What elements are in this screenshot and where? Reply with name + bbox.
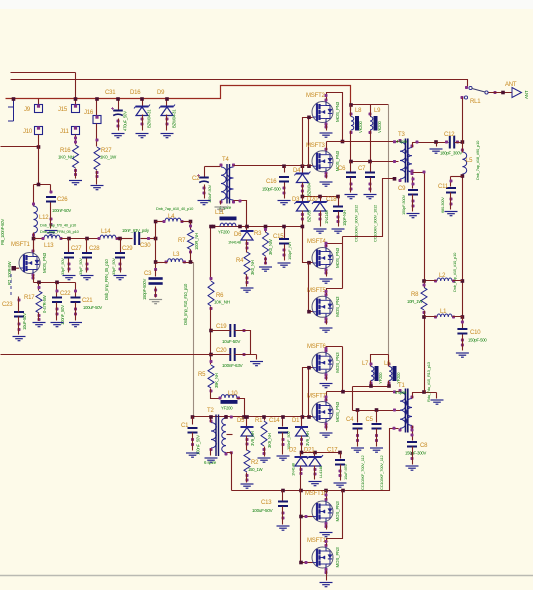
wire bottom-left long [1,354,211,356]
wire relay vertical [462,175,464,317]
wire D6 stub [246,227,248,231]
wire R17 gnd [38,313,40,321]
inductor L5 [461,149,473,178]
svg-text:100pF_NH: 100pF_NH [287,242,292,260]
wire C22 gnd [56,303,58,321]
ground C19 C20 [250,362,263,366]
svg-text:R16: R16 [60,148,71,154]
capacitor C21 [71,290,103,316]
ground C29 [114,276,127,280]
wire C21 gnd [75,303,77,321]
ground D21 [309,482,322,486]
svg-text:RL1: RL1 [470,99,481,105]
svg-text:0-47R-5W: 0-47R-5W [42,295,47,313]
svg-text:R6: R6 [216,293,224,299]
wire MSFT3 drain [326,142,328,151]
wire C14 stub [282,417,284,427]
svg-text:C14: C14 [269,418,280,424]
svg-text:Dnb_7ap_#10_40_p10: Dnb_7ap_#10_40_p10 [156,206,194,211]
svg-text:R1: R1 [255,418,263,424]
capacitor C9 [398,178,418,216]
svg-text:C11: C11 [438,184,449,190]
wire J11 to R16 [75,135,77,145]
transistor MSFT10 [305,491,340,528]
capacitor C4 [346,417,365,490]
resistor R17 [24,286,47,321]
wire MSFT1 drain [33,239,35,253]
wire MSFT2 drain [327,93,343,142]
svg-text:C4: C4 [346,417,354,423]
wire C28 gnd [86,259,88,273]
inductor L14 [98,229,119,240]
wire C5 gnd [376,429,378,447]
diode D5 [237,418,255,446]
svg-text:9 spire: 9 spire [395,390,407,395]
svg-text:10R_1W: 10R_1W [407,299,422,304]
wire R5 to L10 [211,389,221,399]
ground C31 [112,134,125,138]
transformer T3 [396,132,414,183]
junction gate MSFT6 [307,366,311,370]
svg-text:10nF_63V_poly: 10nF_63V_poly [122,228,150,233]
svg-text:MSFT1: MSFT1 [11,242,31,248]
wire C30 node vertical [155,222,157,270]
svg-text:Dnb_Imp_#15_#10_p10: Dnb_Imp_#15_#10_p10 [452,252,457,292]
svg-text:BZW04-31: BZW04-31 [147,109,152,128]
capacitor C26 [46,191,71,227]
wire MSFT7 drain [326,392,328,401]
svg-text:C12: C12 [444,132,455,138]
svg-text:C6: C6 [338,166,346,172]
svg-text:L1: L1 [440,309,447,315]
svg-text:MSFT6: MSFT6 [307,344,327,350]
ground R27 [91,186,104,190]
ground MSFT4 [320,279,333,283]
wire D3 stub [302,197,304,203]
resistor R2 [244,450,263,482]
svg-text:D9: D9 [157,90,165,96]
relay RL1 [461,86,497,105]
junction R7 L3 [189,260,193,264]
diode D4 [293,168,312,196]
svg-text:1K0_1W: 1K0_1W [100,155,117,160]
capacitor C12 [440,132,462,156]
svg-text:D6: D6 [234,232,242,238]
svg-text:33pF_50V: 33pF_50V [60,258,65,275]
svg-text:MSFT7: MSFT7 [307,394,327,400]
ground C5 [370,448,383,452]
wire C27 gnd [68,259,70,273]
wire choke bottom rail [353,386,389,388]
wire C15 gnd [284,245,286,261]
wire L14 to C30 [117,238,133,240]
resistor R8 [407,284,427,315]
wire choke feed lower [371,355,389,367]
wire T3 sec bottom to matching [413,173,425,281]
svg-text:150pF-500V: 150pF-500V [142,279,147,300]
wire D4 stub [302,167,304,173]
svg-text:3K9_NH: 3K9_NH [267,433,272,448]
wire D6 to R4 [246,240,248,253]
wire C13 stub [282,491,284,501]
svg-text:VK200: VK200 [377,121,382,133]
ground R17 [33,323,46,327]
wire C19 row [211,331,251,355]
svg-text:100uF-50V: 100uF-50V [83,305,102,310]
svg-text:L13: L13 [44,243,54,249]
svg-text:10uF-50V: 10uF-50V [22,313,27,330]
svg-text:L6: L6 [384,361,391,367]
svg-text:C20: C20 [216,348,227,354]
svg-text:C2: C2 [192,176,200,182]
wire C16 gnd [284,183,286,199]
svg-text:L9: L9 [374,108,381,114]
gate port MSFT1 [12,266,17,271]
ground C27 [63,276,76,280]
svg-text:100uF-50V: 100uF-50V [252,508,273,513]
svg-text:L5: L5 [466,158,473,164]
connector J10 [23,127,43,136]
wire L9 stubs [370,105,372,162]
junction gate MSFT7 [307,415,311,419]
ground C7 [364,195,377,199]
wire L2 row [425,280,463,282]
wire MSFT6 drain [327,347,343,351]
wire C20 row [211,354,257,356]
wire C26 stub [50,185,52,191]
capacitor C19 [216,324,246,344]
wire T3 primary top rail [327,141,399,143]
svg-text:L14: L14 [101,229,111,235]
ground R4 [241,288,254,292]
capacitor C5 [366,417,385,490]
svg-text:C31: C31 [105,90,116,96]
wire to L13 [34,238,45,240]
wire MSFT11 gate stub [301,562,313,564]
wire L4 to R7 [181,221,191,223]
wire T1 center tap rail [353,410,401,412]
capacitor C27 [60,246,82,275]
inductor L4 [163,214,184,223]
svg-text:C19: C19 [216,324,227,330]
svg-text:C17: C17 [327,448,338,454]
inductor L3 [165,252,187,264]
wire C9 stub [412,177,414,189]
diode D6 [228,231,254,250]
wire R16 to gnd [75,169,77,179]
wire C21 stub [75,283,77,297]
wire C16 stub [284,167,286,173]
wire D9 stub [166,99,168,107]
svg-text:1N4148: 1N4148 [291,462,296,476]
svg-text:3V9_NH: 3V9_NH [305,431,310,446]
capacitor C7 [358,166,378,242]
inductor L6 [384,361,401,385]
wire L8 stubs [350,105,352,162]
svg-text:BZW04-31: BZW04-31 [172,109,177,128]
capacitor C16 [262,177,289,195]
wire C10 gnd [462,335,464,351]
wire L3 ends [163,262,194,264]
svg-text:3K0_NH: 3K0_NH [250,260,255,275]
wire D16 stub [142,99,144,107]
antenna ANT [505,82,529,99]
svg-text:10K_NH: 10K_NH [214,300,230,305]
svg-text:L7: L7 [362,361,369,367]
capacitor C18 [326,197,347,226]
wire D20 gnd [320,211,322,227]
svg-text:MOS_PN3: MOS_PN3 [335,247,340,268]
inductor L8 [350,108,364,134]
ground R1 [258,458,271,462]
svg-text:C7: C7 [358,166,366,172]
svg-text:C23: C23 [2,302,13,308]
ground D9 [161,134,174,138]
junction choke feed [349,103,353,107]
svg-text:T1: T1 [398,383,405,389]
resistor R27 [94,139,117,179]
wire R6 to R5 [210,307,212,365]
wire L12 C26 tee [34,184,51,186]
wire D1 stub [301,417,303,427]
svg-text:R2: R2 [251,460,259,466]
svg-text:MSFT2: MSFT2 [306,93,326,99]
resistor R16 [58,137,79,177]
wire C20 gnd stub [256,355,258,360]
ground C11 [445,212,458,216]
wire MSFT11 source [326,571,328,581]
svg-text:R4: R4 [236,258,244,264]
wire R3 stub [265,227,267,233]
wire J15 stub [75,73,77,105]
wire T3 sec top to C12 [413,143,449,148]
wire J16 to R27 [96,124,98,147]
wire C23 gnd [18,317,20,335]
junction gate MSFT4 [307,261,311,265]
wire MSFT5 drain [327,289,343,295]
ground D20 [314,229,327,233]
inductor L13 [42,235,63,249]
svg-text:C26: C26 [57,197,68,203]
wire lower zener row [301,452,341,454]
wire MSFT11 drain [327,491,343,546]
wire source rail [34,282,76,284]
wire relay to L5 [462,143,464,153]
wire C11 tee [451,176,463,178]
wire C30 out [141,238,156,240]
svg-text:R27: R27 [101,148,112,154]
svg-text:VK200: VK200 [358,121,363,133]
wire relay pole down [462,98,464,143]
wire T4 sec to gates [234,165,313,167]
wire C3 gnd [155,270,157,298]
wire L6 top stub [388,355,390,367]
capacitor C22 [52,290,71,326]
svg-text:T4: T4 [222,157,229,163]
wire gate feed up [303,118,313,167]
ground C21 [69,323,82,327]
svg-text:MOS_PN3: MOS_PN3 [42,252,47,273]
capacitor C11 [438,180,456,214]
wire C1 stub [192,417,194,425]
ground C16 [278,201,291,205]
junction rail J15 [74,97,78,101]
resistor R4 [236,252,255,284]
svg-text:C28: C28 [89,246,100,252]
svg-text:C16: C16 [266,179,277,185]
wire C7 stub [370,162,372,172]
svg-text:D5: D5 [237,418,245,424]
svg-text:10uF-65V: 10uF-65V [343,464,348,480]
wire L10 to T2 rail [237,399,245,417]
wire MSFT10 gate stub [301,516,313,518]
svg-text:680-300V: 680-300V [440,197,445,213]
inductor L11 [215,210,237,235]
wire C17 gnd [340,465,342,481]
capacitor C6 [338,166,359,242]
svg-text:YF200: YF200 [218,230,230,235]
wire C5 stub [376,411,378,423]
ground MSFT10 [320,533,333,537]
svg-text:150pF-300V: 150pF-300V [405,451,426,456]
ground C9 [407,214,420,218]
wire L1 row [425,316,463,318]
wire R17 stub [38,283,40,291]
wire D5 to R2 [246,436,248,451]
svg-text:C21: C21 [82,298,93,304]
wire R8 top [424,281,426,288]
diode D20 [307,197,329,224]
wire R27 to gnd [96,171,98,185]
ground C15 [278,263,291,267]
wire C13 gnd [282,507,284,525]
svg-text:33pF_50V: 33pF_50V [111,258,116,275]
svg-text:LL4148: LL4148 [318,465,323,478]
svg-text:1N4148: 1N4148 [228,240,242,245]
svg-text:Dnb_Imp_FRN_05_p10: Dnb_Imp_FRN_05_p10 [104,259,109,300]
transistor MSFT1 [11,242,47,280]
wire C11 stub [450,177,452,187]
svg-text:3K0_NW: 3K0_NW [268,239,273,255]
transistor MSFT7 [307,394,340,429]
ground C4 [351,448,364,452]
wire R8 to T1 secondary [424,311,426,393]
svg-text:D4: D4 [293,168,301,174]
wire R7 top stub [190,222,192,230]
inductor L9 [369,108,383,134]
svg-text:Dnb_Imp_FRN_05_p10: Dnb_Imp_FRN_05_p10 [40,229,80,234]
svg-text:Dnb_7ap_f70_40_p10: Dnb_7ap_f70_40_p10 [40,223,77,228]
resistor R6 [208,277,230,310]
svg-text:ANT: ANT [505,82,517,88]
svg-text:C3: C3 [144,271,152,277]
ground C2 [198,201,211,205]
ground T1 secondary [431,400,444,404]
wire D16 to gnd [142,115,144,131]
transistor MSFT6 [307,344,340,379]
svg-text:L8: L8 [355,108,362,114]
svg-text:YF200: YF200 [378,372,383,384]
diode D2 [289,448,308,477]
wire T2 sec top [226,417,228,419]
svg-text:BZW04: BZW04 [307,182,312,196]
wire C18 gnd [338,212,340,227]
wire MSFT5 source [326,320,328,325]
svg-text:100nF-50V: 100nF-50V [52,208,71,213]
wire R1 stub [264,417,266,421]
junction T1 sec feed [422,390,426,394]
capacitor C23 [2,299,27,332]
ground C1 [186,453,199,457]
wire zener row [303,196,339,198]
wire R2 gnd [246,473,248,483]
wire T1 sec bottom [412,426,414,441]
wire D9 to gnd [166,115,168,131]
wire left input [1,146,39,148]
transformer T1 [395,383,414,433]
junction gate MSFT2 [307,116,311,120]
svg-text:C22: C22 [60,291,71,297]
wire C2 gnd [204,185,206,199]
wire long driver vertical [193,263,195,417]
svg-text:R5: R5 [198,372,206,378]
svg-text:MSFT3: MSFT3 [306,143,326,149]
capacitor C31 [105,90,128,131]
wire T2 sec bottom down [227,453,232,491]
capacitor C15 [273,234,292,260]
wire C18 stub [338,197,340,207]
wire T1 sec top [413,393,437,399]
ground C12 node [430,149,443,153]
ground C28 [81,276,94,280]
wire R4 gnd [246,275,248,287]
resistor R1 [255,418,272,455]
wire MSFT3 source [326,174,328,179]
junction rail end [301,225,305,229]
wire MSFT10 drain [326,491,328,500]
ground C22 [51,323,64,327]
wire C4 gnd [357,429,359,447]
wire to L12 [33,185,35,207]
wire C4 stub [357,411,359,423]
wire T2 pri bottom [210,449,212,456]
capacitor C10 [457,321,487,347]
wire C1 gnd [192,433,194,451]
svg-text:150pF-500V: 150pF-500V [401,194,406,215]
junction C30 node [154,237,158,241]
svg-text:180pF_300V: 180pF_300V [440,151,462,156]
inductor L12 [32,203,49,237]
svg-text:R3: R3 [254,231,262,237]
svg-text:CC103KF_700V_112: CC103KF_700V_112 [379,454,384,490]
ground C13 [277,526,290,530]
svg-text:4 spire: 4 spire [396,139,408,144]
svg-text:J16: J16 [84,110,94,116]
wire T1 primary top rail [327,391,401,393]
svg-text:MOS_PN3: MOS_PN3 [335,352,340,373]
resistor R7 [178,225,199,254]
svg-text:D1: D1 [292,418,300,424]
wire MSFT7 source [326,425,328,431]
wire C31 to gnd [118,119,120,131]
svg-text:1N4148: 1N4148 [324,210,329,224]
svg-text:C29: C29 [122,246,133,252]
svg-text:39K_NH: 39K_NH [214,373,219,388]
connector J9 [24,105,43,114]
svg-text:MSFT10: MSFT10 [305,491,328,497]
svg-text:C18: C18 [326,197,337,203]
svg-text:Rdu_7du_#15_R13_p13: Rdu_7du_#15_R13_p13 [426,361,431,402]
